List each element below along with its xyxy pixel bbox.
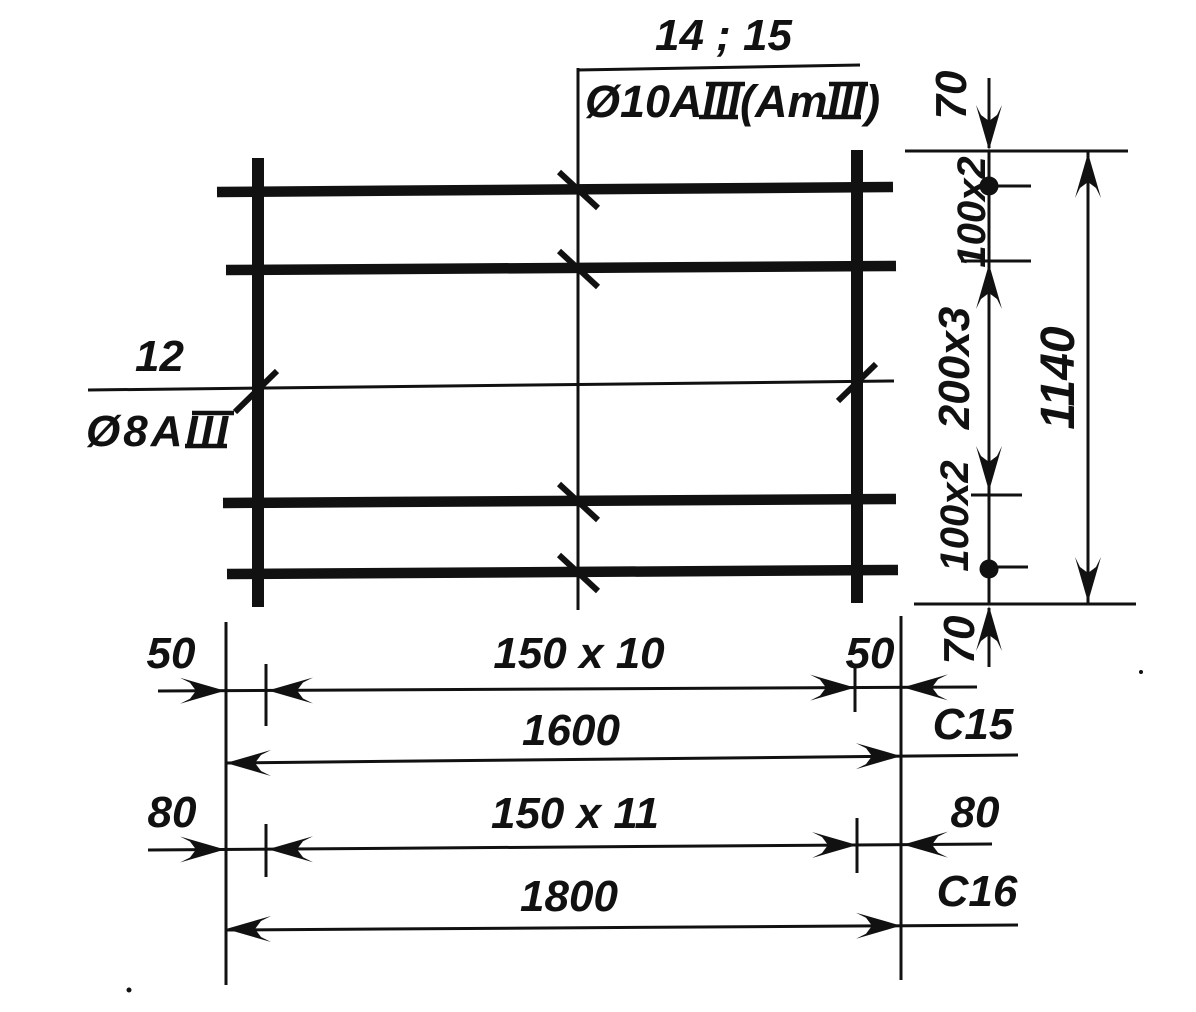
svg-text:70: 70 [935, 615, 984, 664]
svg-text:50: 50 [147, 629, 196, 678]
svg-text:1600: 1600 [522, 706, 620, 755]
svg-text:150 x 10: 150 x 10 [493, 629, 665, 678]
svg-text:C16: C16 [937, 867, 1018, 916]
svg-text:70: 70 [927, 70, 976, 119]
svg-text:200x3: 200x3 [930, 307, 979, 430]
svg-text:100x2: 100x2 [933, 460, 977, 571]
svg-text:1140: 1140 [1032, 326, 1085, 430]
svg-text:C15: C15 [933, 700, 1014, 749]
svg-text:1800: 1800 [520, 872, 618, 921]
svg-text:12: 12 [135, 332, 184, 381]
svg-text:80: 80 [148, 788, 197, 837]
svg-text:100x2: 100x2 [950, 156, 994, 267]
svg-text:14 ; 15: 14 ; 15 [655, 11, 793, 60]
svg-text:50: 50 [846, 629, 895, 678]
svg-text:80: 80 [951, 788, 1000, 837]
svg-text:150 x 11: 150 x 11 [491, 789, 659, 838]
